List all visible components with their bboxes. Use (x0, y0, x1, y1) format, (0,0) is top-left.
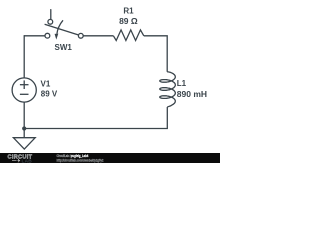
resistor R1 (113, 30, 143, 41)
wire top-left horizontal (24, 35, 45, 37)
svg-text:R1: R1 (123, 7, 134, 16)
svg-text:http://circuitlab.com/c/embakt: http://circuitlab.com/c/embakty2g5y2 (57, 158, 104, 162)
svg-text:V1: V1 (41, 79, 51, 88)
footer logo dash (12, 159, 17, 161)
footer bar (0, 153, 220, 163)
V1 minus sign (20, 93, 29, 95)
node junction dot (22, 126, 26, 130)
svg-text:LAB: LAB (22, 158, 33, 164)
svg-text:89 V: 89 V (41, 90, 58, 99)
wire source bottom (23, 102, 25, 138)
wire switch to resistor (83, 35, 113, 37)
wire inductor to bottom (24, 107, 167, 129)
switch top terminal (48, 19, 53, 24)
V1 plus sign (20, 84, 29, 86)
svg-text:L1: L1 (177, 79, 187, 88)
svg-text:SW1: SW1 (55, 43, 73, 52)
inductor L1 (160, 72, 176, 107)
switch SW1 (45, 10, 84, 40)
svg-text:890 mH: 890 mH (177, 89, 207, 99)
switch actuation arrow (57, 20, 63, 34)
switch right terminal (78, 33, 83, 38)
ground (13, 138, 35, 149)
switch left terminal (45, 33, 50, 38)
svg-text:89 Ω: 89 Ω (119, 16, 138, 26)
voltage source V1 (12, 78, 36, 102)
wire resistor to right corner (144, 36, 167, 72)
wire switch top stub (50, 10, 52, 20)
footer logo bolt (17, 158, 20, 163)
switch lever (45, 24, 79, 35)
wire left vertical (23, 36, 25, 78)
